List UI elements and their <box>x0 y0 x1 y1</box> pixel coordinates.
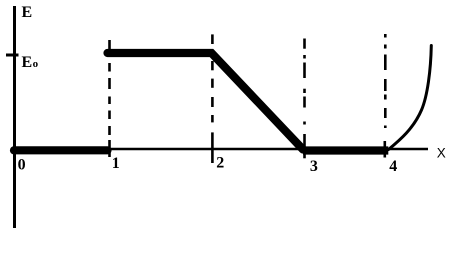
y-axis <box>13 6 16 228</box>
tick below axis at x=1 <box>108 140 111 157</box>
x-axis <box>13 148 428 151</box>
E0 tick on y-axis <box>6 54 19 57</box>
dash-dot guide line at x=3 <box>303 39 306 125</box>
svg-text:Eo: Eo <box>22 54 39 71</box>
svg-text:E: E <box>22 4 33 21</box>
tick below axis at x=4 <box>383 141 386 158</box>
svg-text:X: X <box>437 146 446 161</box>
svg-text:0: 0 <box>18 157 26 174</box>
field segment E=0 from x=3 to x=4 <box>303 146 388 154</box>
svg-text:3: 3 <box>310 158 318 175</box>
dashed guide line at x=1 <box>108 40 111 135</box>
field plateau at E0 from x=1 to x=2 and ramp down to x=3 <box>108 53 304 150</box>
field segment E=0 from x=0 to x=1 <box>14 146 108 154</box>
tick below axis at x=3 <box>303 134 306 158</box>
dash-dot guide line at x=4 <box>384 34 387 128</box>
svg-text:2: 2 <box>216 155 224 172</box>
dashed guide line at x=2 <box>211 34 214 122</box>
tick below axis at x=2 <box>211 132 214 163</box>
svg-text:4: 4 <box>389 158 397 175</box>
rising curve after x=4 <box>389 46 432 150</box>
svg-text:1: 1 <box>112 155 120 172</box>
